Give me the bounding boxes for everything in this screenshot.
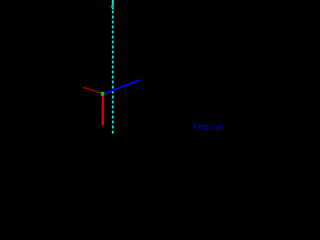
- node A: small green anchor dot at top: [111, 5, 113, 7]
- wire: dashed cyan vertical reference line: [112, 0, 114, 135]
- wire: solid cyan segment at top: [112, 0, 114, 10]
- wire: dark red sloped line: [83, 87, 102, 93]
- wire: bright red vertical line: [102, 96, 104, 126]
- wire: blue velocity line: [104, 80, 140, 94]
- svg-text:X tmg / 2yy: X tmg / 2yy: [193, 124, 223, 131]
- node B: green square mass: [101, 92, 104, 96]
